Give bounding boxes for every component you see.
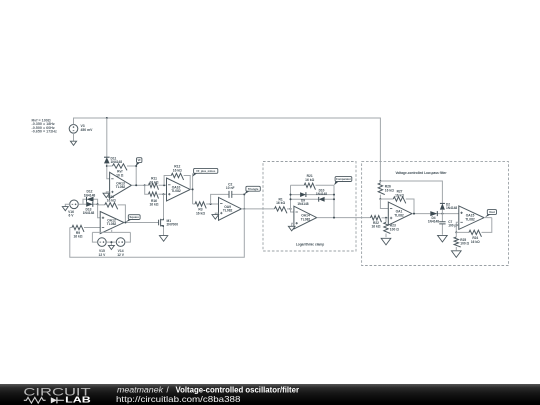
svg-text:meatmanek: meatmanek <box>117 386 164 395</box>
svg-text:Voltage-controlled oscillator/: Voltage-controlled oscillator/filter <box>176 386 300 395</box>
svg-text:LAB: LAB <box>65 394 91 404</box>
svg-text:/: / <box>167 386 170 395</box>
svg-text:http://circuitlab.com/c8ba388: http://circuitlab.com/c8ba388 <box>116 395 241 404</box>
